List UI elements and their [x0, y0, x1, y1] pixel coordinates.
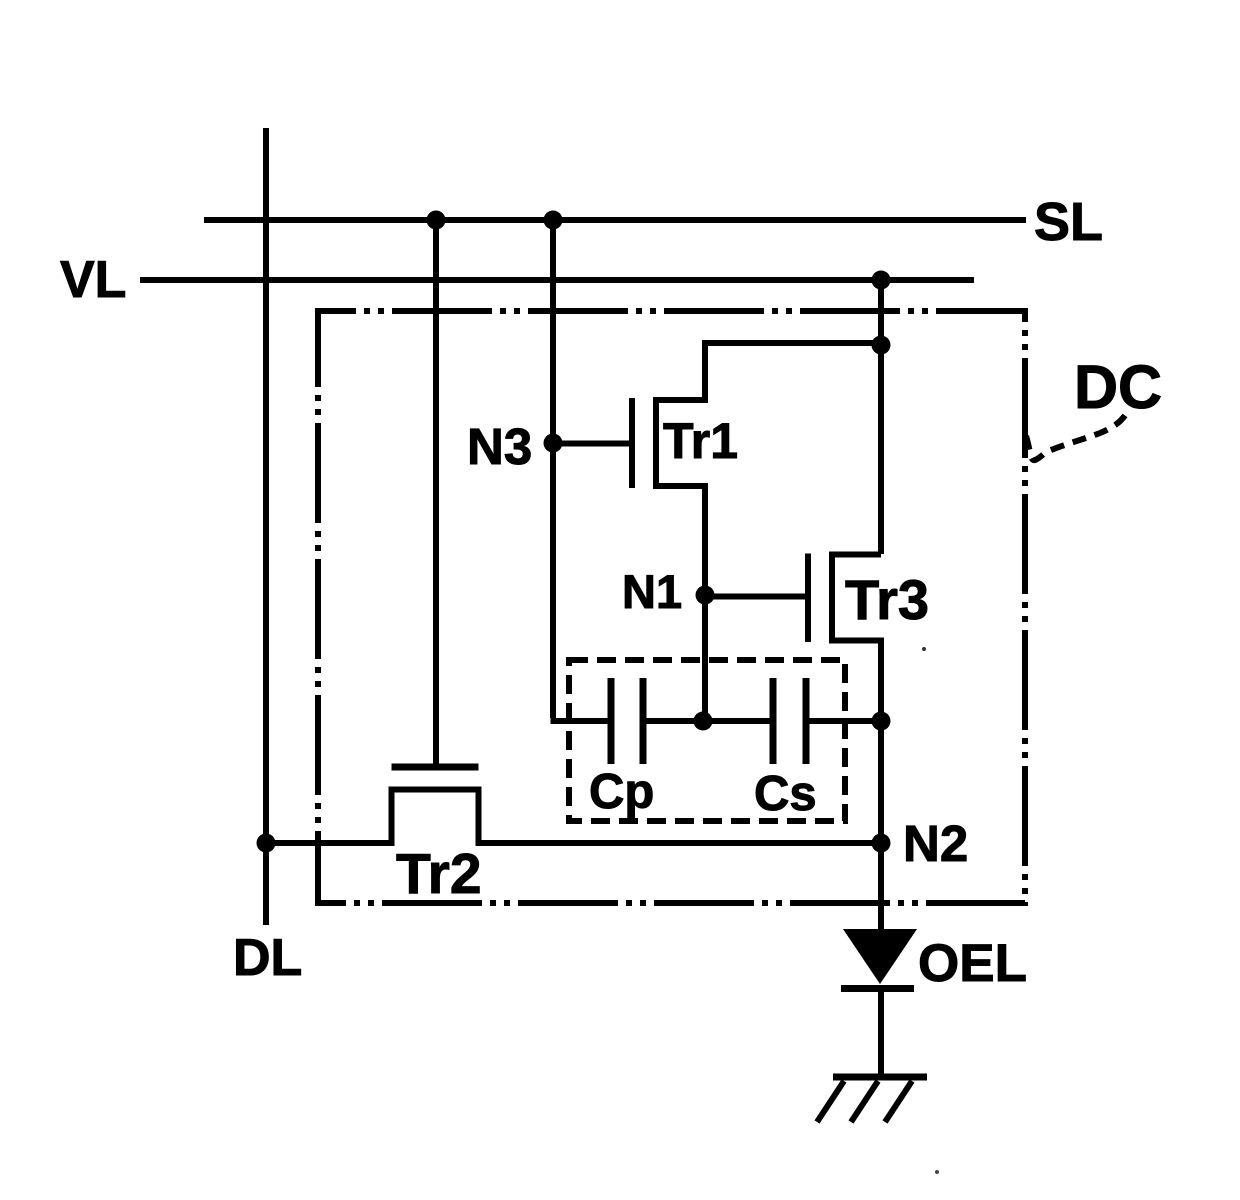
svg-text:Cs: Cs — [754, 767, 817, 821]
svg-text:N1: N1 — [622, 565, 682, 618]
svg-text:N2: N2 — [903, 815, 968, 872]
svg-text:Tr3: Tr3 — [845, 568, 929, 631]
svg-text:SL: SL — [1034, 192, 1103, 252]
svg-text:DL: DL — [233, 929, 302, 987]
svg-text:Cp: Cp — [589, 765, 654, 819]
svg-text:DC: DC — [1074, 353, 1162, 421]
svg-text:VL: VL — [60, 251, 126, 309]
svg-text:Tr1: Tr1 — [663, 413, 738, 469]
svg-text:Tr2: Tr2 — [396, 842, 482, 906]
svg-text:OEL: OEL — [918, 934, 1027, 993]
svg-text:N3: N3 — [467, 418, 532, 475]
